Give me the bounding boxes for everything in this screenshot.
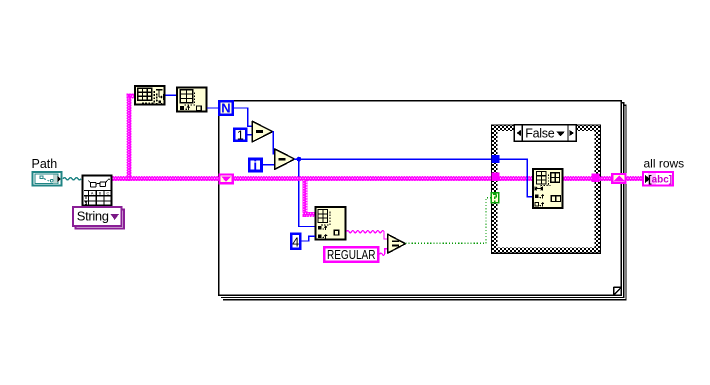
wire 2D array branch down to index icon [303, 180, 308, 217]
wire 2D array loop tunnel to indicator [627, 176, 644, 181]
svg-text:4: 4 [292, 235, 299, 249]
loop corner fold [614, 287, 622, 295]
svg-text:String: String [77, 209, 109, 224]
wire i to subtract2 [263, 164, 275, 166]
wire blue inside case [500, 159, 533, 197]
N terminal [219, 101, 233, 116]
wire N to subtract1 [234, 108, 253, 126]
wire boolean to case selector [405, 198, 491, 244]
case tunnel magenta left [492, 173, 500, 181]
svg-text:Path: Path [32, 157, 58, 171]
wire icon1 to icon2 [166, 94, 177, 96]
constant 1 [234, 129, 246, 143]
wire string from index icon to equal [347, 231, 388, 239]
indicator all rows [643, 172, 673, 186]
wire icon2 to N [207, 107, 220, 109]
i terminal [249, 158, 261, 173]
svg-text:1: 1 [237, 129, 244, 143]
loop tunnel right (auto-index out) [611, 173, 627, 184]
delete from array icon [533, 169, 562, 208]
svg-text:i: i [253, 158, 257, 173]
wire path (teal squiggle) [63, 178, 81, 180]
wire 2D array inside case [500, 176, 534, 181]
subtract1 [252, 121, 272, 142]
wire junction down to index icon [299, 159, 315, 226]
top icon 2 [177, 88, 206, 112]
case tunnel blue [492, 155, 500, 163]
svg-text:A: A [91, 192, 94, 196]
wire 2D string array inside loop [234, 176, 492, 181]
junction node [297, 157, 302, 162]
wire subtract1 to subtract2 [272, 132, 274, 154]
wire subtract2 to case tunnel [294, 158, 492, 160]
svg-text:abc]: abc] [652, 175, 673, 186]
subtract2 [275, 149, 295, 170]
svg-text:False: False [525, 127, 554, 141]
index array icon [315, 207, 345, 239]
wire 2D string array: vertical to top icons [126, 94, 131, 181]
wire 2D array case to loop tunnel [600, 176, 611, 181]
case structure border [491, 125, 600, 253]
String instance selector [73, 207, 124, 229]
case selector label False [514, 125, 576, 141]
for loop border [219, 101, 626, 300]
path control [33, 172, 62, 186]
svg-text:REGULAR: REGULAR [327, 247, 376, 262]
wire string from REGULAR to equal [380, 249, 388, 256]
svg-text:N: N [221, 101, 230, 116]
constant 4 [291, 234, 300, 250]
case selector tunnel [491, 193, 499, 203]
wire 1 to subtract1 [247, 134, 252, 136]
loop tunnel left (auto-index in) [218, 173, 234, 184]
top icon 1 [135, 86, 165, 105]
Read Delimited Spreadsheet (String).vi glasses icon [83, 176, 112, 206]
equal? [388, 234, 406, 253]
string constant REGULAR [324, 247, 378, 262]
svg-text:C: C [107, 192, 110, 196]
wire 2D string array: horizontal to loop [113, 176, 219, 181]
wire 4 to index icon [301, 236, 315, 241]
case tunnel magenta right [591, 173, 599, 182]
svg-text:all rows: all rows [644, 157, 685, 171]
